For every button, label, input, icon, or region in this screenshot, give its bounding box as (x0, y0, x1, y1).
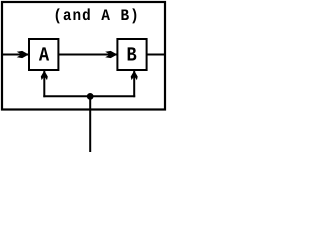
wire: input from left wall to A (2, 54, 28, 56)
arrowhead into A (17, 51, 29, 58)
wire: A to B (59, 54, 117, 56)
label A (39, 47, 49, 60)
block A (29, 39, 58, 70)
junction dot (87, 93, 94, 100)
wire: B output to right wall (147, 54, 166, 56)
arrowhead up into B (131, 71, 138, 81)
wire: drop line exiting bottom (89, 96, 91, 152)
block B (117, 39, 146, 70)
label B (128, 47, 137, 60)
arrowhead into B (105, 51, 117, 58)
wire: feedback horizontal run (43, 95, 135, 97)
outer enclosure box (2, 2, 165, 110)
wire: feedback riser under B (133, 71, 135, 97)
arrowhead up into A (41, 71, 48, 81)
wire: feedback riser under A (43, 71, 45, 97)
label (and A B) (56, 8, 137, 23)
